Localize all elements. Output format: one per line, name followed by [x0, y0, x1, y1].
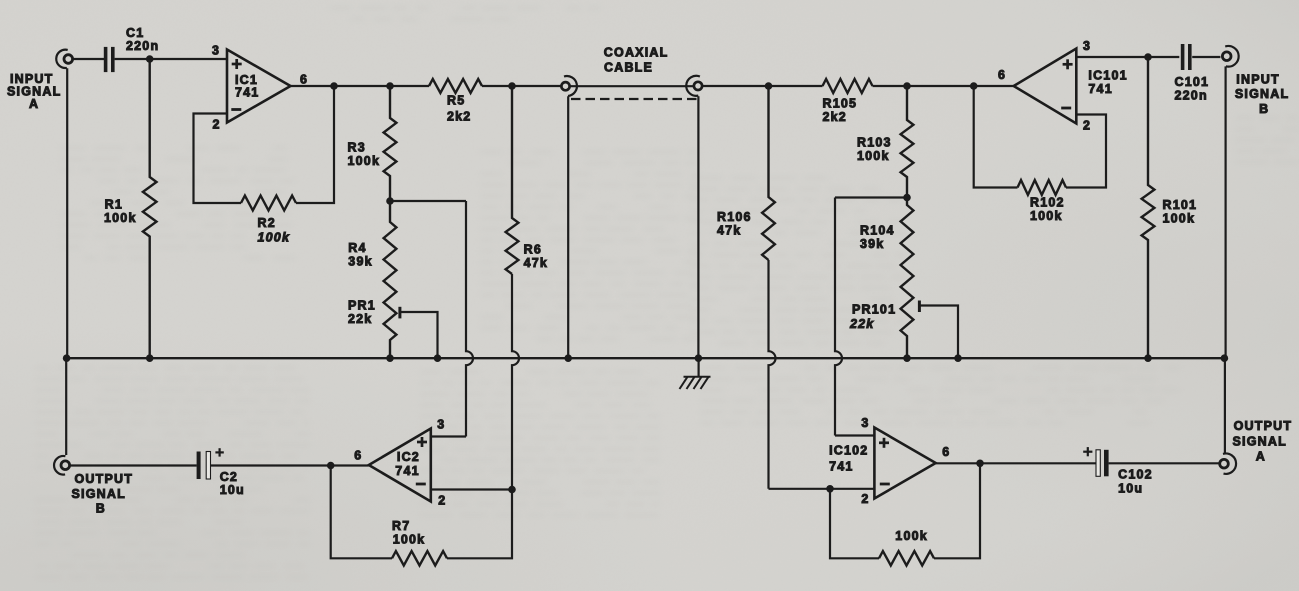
svg-text:39k: 39k	[860, 237, 884, 251]
svg-text:C102: C102	[1118, 468, 1153, 482]
svg-text:100k: 100k	[348, 154, 381, 168]
svg-text:3: 3	[212, 44, 220, 58]
svg-text:OUTPUT: OUTPUT	[75, 472, 134, 486]
svg-text:220n: 220n	[1175, 89, 1208, 103]
svg-text:PR1: PR1	[348, 299, 376, 313]
svg-text:R3: R3	[348, 141, 366, 155]
svg-text:IC102: IC102	[829, 444, 868, 458]
svg-text:100k: 100k	[393, 533, 426, 547]
svg-text:PR101: PR101	[852, 303, 896, 317]
svg-text:IC101: IC101	[1088, 68, 1127, 82]
svg-text:CABLE: CABLE	[604, 61, 653, 75]
svg-text:A: A	[1256, 450, 1266, 464]
svg-text:741: 741	[395, 464, 419, 478]
svg-text:INPUT: INPUT	[1236, 72, 1280, 86]
svg-text:6: 6	[998, 68, 1006, 82]
svg-text:741: 741	[829, 460, 853, 474]
svg-text:6: 6	[354, 449, 362, 463]
svg-text:100k: 100k	[258, 230, 291, 244]
svg-text:R101: R101	[1163, 198, 1198, 212]
svg-text:R104: R104	[860, 224, 895, 238]
svg-text:R2: R2	[258, 216, 276, 230]
svg-text:47k: 47k	[524, 256, 548, 270]
svg-text:22k: 22k	[348, 312, 372, 326]
svg-text:2k2: 2k2	[447, 110, 471, 124]
svg-text:6: 6	[942, 445, 950, 459]
svg-text:10u: 10u	[220, 483, 245, 497]
svg-text:3: 3	[861, 416, 869, 430]
svg-text:R5: R5	[447, 94, 465, 108]
svg-text:C101: C101	[1175, 75, 1210, 89]
svg-text:B: B	[96, 501, 106, 515]
svg-text:100k: 100k	[1030, 209, 1063, 223]
svg-text:SIGNAL: SIGNAL	[1233, 434, 1287, 448]
svg-text:2: 2	[438, 494, 446, 508]
svg-text:SIGNAL: SIGNAL	[1235, 87, 1289, 101]
svg-text:R4: R4	[348, 241, 366, 255]
svg-text:10u: 10u	[1118, 482, 1143, 496]
svg-text:100k: 100k	[1163, 212, 1196, 226]
svg-text:R106: R106	[717, 210, 752, 224]
svg-text:47k: 47k	[717, 224, 741, 238]
svg-text:2: 2	[861, 492, 869, 506]
svg-text:R102: R102	[1030, 196, 1065, 210]
svg-text:R1: R1	[105, 198, 123, 212]
svg-text:R6: R6	[524, 242, 542, 256]
svg-text:6: 6	[300, 73, 308, 87]
svg-text:A: A	[29, 97, 39, 111]
svg-text:SIGNAL: SIGNAL	[72, 487, 126, 501]
svg-text:R103: R103	[857, 136, 892, 150]
svg-text:2: 2	[1083, 119, 1091, 133]
svg-text:100k: 100k	[895, 529, 928, 543]
svg-text:C2: C2	[220, 470, 238, 484]
svg-text:3: 3	[437, 418, 445, 432]
svg-text:B: B	[1259, 102, 1269, 116]
svg-text:R105: R105	[823, 97, 858, 111]
svg-text:2k2: 2k2	[823, 110, 847, 124]
svg-text:2: 2	[213, 118, 221, 132]
svg-text:741: 741	[1088, 82, 1112, 96]
svg-text:R7: R7	[392, 519, 410, 533]
svg-text:39k: 39k	[348, 254, 372, 268]
svg-text:741: 741	[235, 85, 259, 99]
svg-text:22k: 22k	[849, 317, 874, 331]
svg-text:100k: 100k	[104, 211, 137, 225]
svg-text:220n: 220n	[126, 39, 159, 53]
svg-text:IC2: IC2	[397, 450, 420, 464]
svg-text:100k: 100k	[857, 149, 890, 163]
svg-text:3: 3	[1083, 39, 1091, 53]
svg-text:OUTPUT: OUTPUT	[1234, 419, 1293, 433]
svg-text:COAXIAL: COAXIAL	[604, 46, 669, 60]
